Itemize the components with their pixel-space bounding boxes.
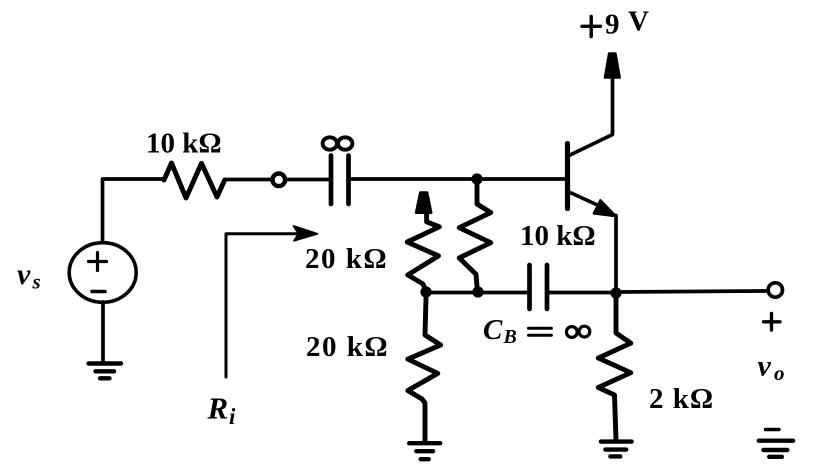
output minus polarity sign <box>766 428 780 431</box>
resistor R2 10 kOhm (base to node X, bootstrap) <box>459 184 491 292</box>
ground under R3 <box>409 443 440 459</box>
ground at output reference <box>759 441 793 457</box>
svg-text:V: V <box>628 6 649 38</box>
output plus polarity sign <box>764 314 781 331</box>
value label infinity (coupling capacitor), drawn as two circles <box>323 137 337 149</box>
ground under R4 <box>601 442 632 457</box>
capacitor C1 infinity coupling cap plates <box>331 156 349 205</box>
resistor R3 20 kOhm (node X to ground) <box>408 298 441 441</box>
svg-text:o: o <box>774 361 785 385</box>
infinity of C_B label, drawn as two circles <box>566 327 577 338</box>
node output open circle terminal <box>768 283 782 297</box>
minus sign inside source <box>92 290 105 294</box>
node X left junction dot <box>420 286 431 297</box>
R_i arrow head <box>294 226 318 241</box>
resistor R_s 10 kOhm (series source resistor) <box>164 163 225 198</box>
svg-text:B: B <box>503 326 517 348</box>
svg-text:i: i <box>229 404 236 429</box>
wire resistor to input node circle <box>225 178 271 182</box>
svg-text:2 kΩ: 2 kΩ <box>649 383 714 415</box>
arrow to supply on R1 <box>416 193 431 213</box>
transistor Q1 collector lead <box>569 78 613 156</box>
label +9 V supply: plus sign drawn <box>582 17 601 37</box>
R_i input-resistance arrow <box>226 234 298 377</box>
wire capacitor C_B to emitter node <box>549 291 616 295</box>
wire source to ground <box>101 302 105 363</box>
wire emitter node to output terminal <box>616 291 767 292</box>
svg-text:20 kΩ: 20 kΩ <box>306 331 389 363</box>
wire capacitor to transistor base with junction <box>351 177 566 181</box>
svg-text:s: s <box>32 270 41 294</box>
node base junction dot <box>471 173 482 184</box>
node X right junction dot <box>472 286 483 297</box>
wire input node circle to coupling capacitor <box>286 178 329 182</box>
svg-text:v: v <box>17 258 31 291</box>
wire left vertical from corner down to vs source <box>103 179 165 243</box>
wire emitter down to output node <box>614 216 618 293</box>
transistor Q1 emitter lead with arrow <box>569 192 604 208</box>
capacitor C_B plates <box>530 265 548 309</box>
svg-text:9: 9 <box>605 9 620 41</box>
svg-text:v: v <box>758 350 772 383</box>
supply arrow head +9V <box>605 54 620 78</box>
plus sign inside source <box>89 253 107 271</box>
node emitter junction dot <box>610 287 621 298</box>
emitter arrow head <box>594 200 616 216</box>
equals sign of C_B label <box>529 328 552 335</box>
svg-text:20 kΩ: 20 kΩ <box>305 243 388 275</box>
source vs circle <box>69 243 136 303</box>
svg-text:C: C <box>483 314 503 346</box>
svg-text:10 kΩ: 10 kΩ <box>146 128 222 160</box>
resistor R4 2 kOhm (emitter to ground) <box>598 298 631 440</box>
resistor R1 20 kOhm with supply arrow (to +9V) <box>407 214 439 292</box>
transistor Q1 base bar <box>565 144 570 209</box>
svg-text:R: R <box>207 391 229 426</box>
node input open circle terminal <box>273 174 286 187</box>
ground under source vs <box>89 364 122 379</box>
wire lower node X horizontal run <box>426 291 528 295</box>
svg-text:10 kΩ: 10 kΩ <box>520 220 596 252</box>
